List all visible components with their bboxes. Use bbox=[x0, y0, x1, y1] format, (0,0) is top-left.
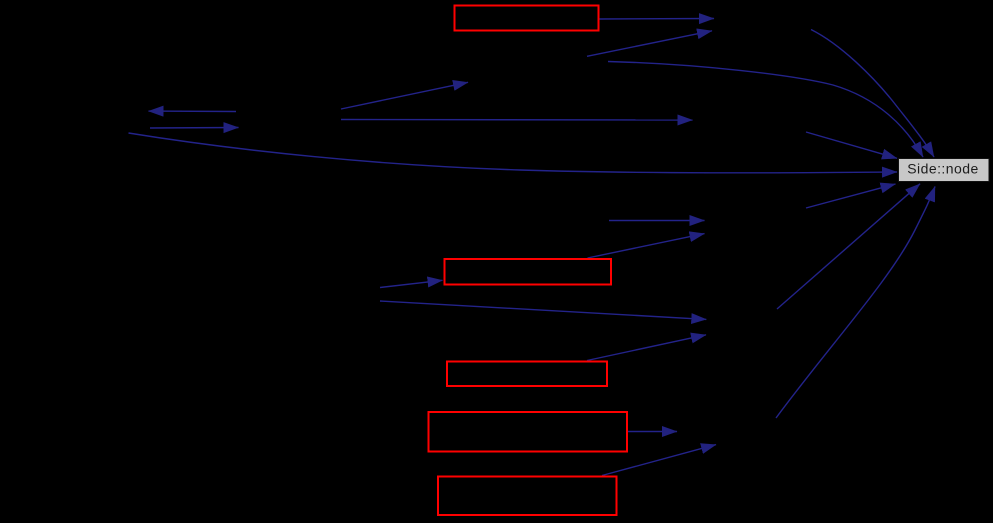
svg-text:Side::node: Side::node bbox=[907, 161, 978, 177]
